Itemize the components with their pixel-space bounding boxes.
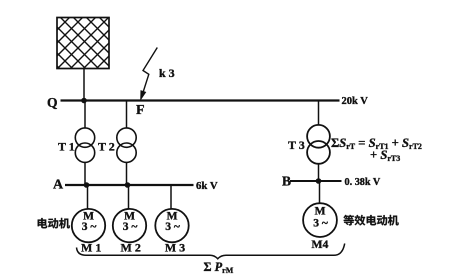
svg-text:T 2: T 2: [98, 140, 115, 154]
wire: source to bus Q: [83, 69, 85, 101]
wire: bus Q to transformer T3: [318, 101, 320, 126]
wire: transformer T2 to bus A: [126, 162, 128, 185]
svg-text:F: F: [136, 103, 145, 118]
svg-text:20k V: 20k V: [342, 96, 369, 107]
svg-text:A: A: [53, 178, 64, 193]
svg-text:6k V: 6k V: [196, 180, 218, 192]
svg-text:Q: Q: [47, 95, 58, 110]
svg-text:T 1: T 1: [58, 140, 75, 154]
svg-text:+ SrT3: + SrT3: [370, 148, 400, 163]
svg-text:Σ PrM: Σ PrM: [204, 260, 234, 275]
wire: bus Q to transformer T2: [126, 101, 128, 129]
junction: T1 feeder on bus A: [84, 182, 90, 188]
transformer T1: [75, 128, 94, 162]
svg-text:0. 38k V: 0. 38k V: [345, 177, 381, 188]
bus B (0.38 kV busbar): [290, 180, 342, 182]
svg-text:3 ~: 3 ~: [123, 221, 138, 233]
svg-text:M 1: M 1: [81, 241, 101, 255]
label dengXiaoDianDongJi (Chinese: equivalent motor): [343, 215, 398, 226]
wire: bus Q to transformer T1: [84, 101, 86, 129]
transformer T3: [307, 125, 330, 164]
motor M4 (circle with M 3~): [303, 203, 337, 237]
svg-text:3 ~: 3 ~: [313, 217, 328, 229]
label dianDongJi (Chinese: motor): [38, 218, 70, 229]
svg-text:M: M: [315, 206, 326, 218]
svg-text:M 3: M 3: [165, 241, 185, 255]
motor M1 (circle with M 3~): [72, 209, 105, 242]
svg-text:k 3: k 3: [159, 66, 175, 80]
svg-text:T 3: T 3: [288, 138, 305, 152]
svg-text:3 ~: 3 ~: [165, 221, 180, 233]
motor M3 (circle with M 3~): [155, 209, 188, 242]
wire: bus A to motor M2: [128, 185, 130, 209]
bus A (6 kV busbar): [65, 184, 194, 186]
svg-text:3 ~: 3 ~: [82, 221, 97, 233]
motor M2 (circle with M 3~): [113, 209, 146, 242]
transformer T2: [117, 128, 136, 162]
junction: source tap on bus Q: [81, 98, 87, 104]
svg-text:M 2: M 2: [121, 241, 141, 255]
junction: T2 feeder on bus A: [125, 182, 131, 188]
svg-text:B: B: [282, 174, 291, 189]
brace: group of motors M1..M4: [77, 244, 345, 259]
wire: transformer T3 to bus B: [318, 164, 320, 182]
junction: T3 feeder on bus B: [316, 178, 322, 184]
bus Q (20 kV busbar): [61, 99, 340, 101]
wire: bus A to motor M3: [170, 185, 172, 209]
svg-text:M4: M4: [311, 237, 328, 251]
fault arrow k3 (lightning bolt to point F): [140, 48, 157, 102]
wire: transformer T1 to bus A: [84, 162, 86, 185]
power source S (hatched square, supply system symbol): [0, 0, 192, 110]
wire: bus A to motor M1: [87, 185, 89, 209]
wire: bus B to motor M4: [319, 181, 321, 203]
